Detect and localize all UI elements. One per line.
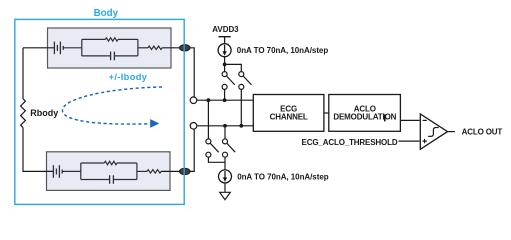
switch S2: [239, 72, 252, 90]
junction S2/rail2: [239, 124, 243, 128]
supply rail AVDD3 bar: [218, 37, 230, 44]
node terminal (rail 2 input): [190, 123, 197, 130]
svg-text:Body: Body: [94, 8, 119, 19]
wire to top electrode: [162, 47, 180, 49]
plus input: [422, 139, 426, 143]
wire bottom electrode to node: [190, 129, 194, 171]
wire comparator output: [448, 131, 455, 133]
resistor Rseries (bottom): [147, 170, 161, 173]
switch S3: [206, 139, 219, 157]
svg-text:ACLO OUT: ACLO OUT: [462, 127, 503, 136]
block ECG CHANNEL: [253, 95, 324, 132]
wire threshold to comparator: [399, 140, 420, 142]
junction S1/rail1: [223, 98, 227, 102]
svg-text:0nA TO 70nA, 10nA/step: 0nA TO 70nA, 10nA/step: [237, 46, 329, 55]
svg-text:AVDD3: AVDD3: [212, 25, 239, 34]
battery B1 (top half-cell potential): [54, 42, 63, 55]
wire loop to series resistor (bottom): [137, 170, 147, 172]
wire S3/S4 join to I2: [208, 157, 225, 170]
wire into top battery: [23, 47, 54, 49]
ground: [220, 192, 231, 199]
wire I2 to ground: [224, 183, 226, 193]
resistor Rseries (top): [148, 46, 162, 49]
resistor-capacitor parallel loop (top): resistor: [82, 38, 138, 56]
switch S4: [223, 139, 236, 157]
minus input: [423, 119, 427, 121]
arrowhead of dashed arrow: [150, 119, 159, 128]
resistor-capacitor parallel loop (bottom): resistor: [81, 161, 137, 179]
resistor Rbody: [21, 99, 26, 128]
wire rail 2: [197, 125, 254, 127]
electrode contact (top): [180, 45, 191, 51]
block ACLO DEMODULATION: [329, 95, 401, 132]
wire rail 1: [197, 99, 254, 101]
svg-text:CHANNEL: CHANNEL: [270, 113, 308, 122]
wire ACLO to comparator: [400, 119, 419, 121]
switch S1: [222, 72, 235, 90]
current source I2: [219, 170, 232, 183]
wire branch to right switch: [225, 64, 242, 71]
wire to bottom electrode: [161, 170, 180, 172]
dashed current-flow arrow: [62, 87, 162, 124]
wire rail2 to S4: [224, 126, 226, 139]
wire ECG to ACLO: [324, 112, 329, 114]
wire top electrode to node: [190, 48, 194, 97]
capacitor C2 (bottom loop): [81, 175, 137, 184]
artifact bar in DEMODULATION: [384, 114, 386, 121]
svg-text:Rbody: Rbody: [30, 108, 58, 118]
junction top splitter: [223, 63, 227, 67]
electrode model box Z2 (bottom): [47, 152, 171, 191]
wire battery to RC loop bottom: [62, 170, 81, 172]
wire left vertical top: [22, 48, 24, 99]
electrode model box Z1 (top): [48, 28, 172, 68]
wire S2 to rail 2: [240, 89, 242, 125]
electrode contact (bottom): [180, 168, 191, 174]
node terminal (rail 1 input): [190, 97, 197, 104]
wire S1 to rail 1: [224, 89, 226, 100]
wire left vertical bottom: [23, 128, 53, 172]
svg-text:ECG_ACLO_THRESHOLD: ECG_ACLO_THRESHOLD: [302, 138, 398, 147]
wire battery to RC loop top: [63, 47, 82, 49]
wire I1 to switches: [224, 57, 226, 72]
current source I1: [218, 44, 231, 57]
comparator U1: [420, 114, 447, 149]
wire rail1 to S3: [207, 100, 209, 139]
junction rail1/S3: [207, 98, 211, 102]
svg-text:0nA TO 70nA, 10nA/step: 0nA TO 70nA, 10nA/step: [237, 172, 329, 181]
hysteresis symbol: [428, 127, 438, 136]
battery B2 (bottom half-cell potential): [53, 165, 62, 178]
svg-text:DEMODULATION: DEMODULATION: [333, 113, 396, 122]
wire loop to series resistor (top): [138, 47, 148, 49]
junction rail2/S4: [223, 124, 227, 128]
Body bounding box: [15, 19, 184, 204]
svg-text:+/-Ibody: +/-Ibody: [109, 72, 148, 82]
capacitor C1 (top loop): [82, 52, 138, 61]
